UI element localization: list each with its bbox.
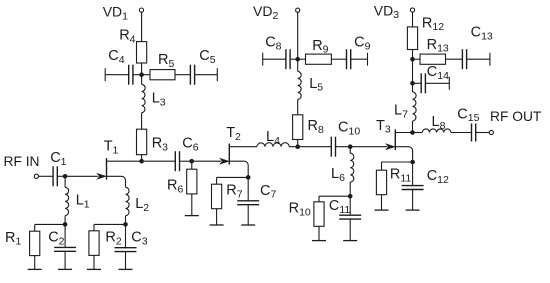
label L8: [432, 114, 446, 132]
capacitor C13: [462, 49, 466, 69]
node M junction (L7/L8 on output line): [410, 130, 415, 135]
resistor R1: [30, 231, 40, 255]
capacitor C15: [472, 124, 476, 142]
wire R6 to ground: [191, 194, 193, 216]
wire T3 source bend: [395, 147, 412, 162]
open stub tick right of C9: [367, 53, 369, 66]
open stub tick right of C5: [216, 68, 218, 81]
label R11: [390, 167, 412, 185]
inductor L1: [65, 187, 69, 215]
label C13: [471, 25, 493, 43]
resistor R13: [420, 54, 446, 64]
wire R13 to C13: [446, 58, 463, 60]
resistor R2: [89, 231, 99, 256]
wire R8 bottom stem: [297, 140, 299, 147]
wire C13 to tick: [467, 58, 490, 60]
ground under R1: [28, 268, 42, 270]
wire node M up to L7: [412, 121, 414, 133]
label VD1: [103, 4, 128, 23]
wire node K to R10: [319, 196, 350, 202]
capacitor C2: [54, 247, 76, 251]
capacitor C1: [53, 166, 57, 186]
ground under R2: [87, 268, 101, 270]
wire node K down to C11: [349, 198, 351, 215]
wire T3 drain to node M: [395, 132, 412, 134]
inductor L8: [422, 129, 451, 133]
wire C2 to ground: [64, 251, 66, 269]
wire R10 to ground: [318, 226, 320, 240]
label C14: [427, 64, 449, 82]
label R12: [422, 15, 444, 33]
output port RF OUT terminal: [489, 130, 493, 134]
resistor R3: [137, 129, 147, 155]
transistor T3: [394, 129, 396, 150]
wire node B down to C2: [64, 227, 66, 248]
wire tick to C4: [105, 74, 129, 76]
wire C3 to ground: [125, 252, 127, 270]
transistor T1: [106, 158, 108, 180]
wire R4 to VD1 terminal: [141, 12, 143, 41]
T3 gate arrowhead: [386, 144, 394, 149]
T2 gate arrowhead: [220, 159, 228, 164]
capacitor C9: [347, 49, 351, 69]
wire R3 bottom stem: [141, 155, 143, 162]
capacitor C8: [286, 49, 290, 69]
T1 gate arrowhead: [98, 174, 106, 179]
resistor R6: [187, 169, 197, 194]
ground under C3: [119, 268, 133, 270]
wire node L down to C12: [412, 164, 414, 185]
wire R11 to ground: [381, 195, 383, 210]
input port RF IN terminal: [34, 174, 38, 178]
label R3: [152, 135, 168, 153]
open stub tick right of C13: [489, 53, 491, 66]
svg-text:RF IN: RF IN: [4, 154, 40, 169]
wire R3 to L3: [141, 113, 143, 130]
wire node N up to node P: [412, 59, 414, 83]
wire node B to R1: [35, 224, 65, 231]
wire node L to R11: [382, 162, 413, 170]
node H junction (R8 bottom on drain line): [295, 144, 300, 149]
resistor R12: [407, 27, 417, 50]
label R2: [105, 229, 121, 247]
label R8: [308, 118, 324, 136]
label T2: [226, 125, 241, 143]
label VD2: [253, 3, 278, 22]
wire R5 to C5: [175, 74, 190, 76]
node N junction (C14 row): [410, 81, 415, 86]
label L1: [76, 192, 90, 210]
wire C10 to node J: [335, 146, 350, 148]
inductor L4: [257, 143, 289, 147]
wire C4 to node E: [133, 74, 142, 76]
wire node I up to VD2 terminal: [297, 12, 299, 59]
wire C14 to tick: [425, 82, 449, 84]
label R6: [167, 178, 183, 196]
wire node A to T1 gate: [65, 175, 98, 177]
supply terminal VD3: [410, 8, 414, 12]
wire C1 to node A: [57, 175, 65, 177]
label C10: [338, 120, 360, 138]
ground under C12: [406, 209, 420, 211]
label R7: [226, 182, 242, 200]
label RF OUT: [490, 109, 542, 124]
label C7: [260, 183, 276, 201]
supply terminal VD2: [296, 8, 300, 12]
wire node F to T2 gate: [192, 160, 221, 162]
capacitor C12: [402, 186, 424, 190]
capacitor C3: [115, 248, 137, 252]
wire L7 to node N: [412, 83, 414, 92]
wire R8 to L5: [297, 99, 299, 114]
node E junction (C4/R5/L3/R4): [139, 72, 144, 77]
node P junction (R12/R13): [410, 57, 415, 62]
label VD3: [374, 2, 399, 21]
wire C5 to tick: [194, 74, 217, 76]
label C5: [199, 48, 215, 66]
label R4: [119, 27, 135, 45]
svg-text:RF OUT: RF OUT: [490, 109, 542, 124]
label RF IN: [4, 154, 40, 169]
label C3: [131, 229, 147, 247]
node G junction (T2 source/R7/C7): [246, 175, 251, 180]
ground under R10: [312, 240, 326, 242]
node L junction (T3 source/R11/C12): [410, 160, 415, 165]
capacitor C5: [190, 65, 194, 85]
inductor L5: [298, 71, 302, 99]
wire node I to R9: [298, 58, 306, 60]
label R9: [312, 38, 328, 56]
label L2: [135, 196, 149, 214]
wire T2 drain to L4: [229, 146, 257, 148]
resistor R9: [306, 54, 332, 64]
wire tick to C8: [263, 58, 286, 60]
wire node E up to R4: [141, 63, 143, 75]
capacitor C4: [129, 65, 133, 85]
node D junction (R3 bottom on drain line): [139, 159, 144, 164]
wire R7 to ground: [216, 209, 218, 225]
label C6: [182, 135, 198, 153]
label C2: [48, 229, 64, 247]
ground under R6: [185, 215, 199, 217]
resistor R10: [314, 202, 324, 227]
wire R2 to ground: [93, 255, 95, 269]
wire node G to R7: [217, 177, 249, 184]
ground under R7: [210, 224, 224, 226]
label T1: [104, 139, 119, 157]
label C8: [265, 35, 281, 53]
supply terminal VD1: [139, 8, 143, 12]
wire R9 to C9: [331, 58, 346, 60]
label C12: [427, 168, 449, 186]
label C4: [108, 48, 124, 66]
wire C12 to ground: [412, 190, 414, 211]
capacitor C7: [237, 201, 259, 205]
label R10: [289, 200, 311, 218]
capacitor C6: [175, 151, 179, 171]
node J junction (C10/L6/T3 gate): [348, 144, 353, 149]
label R13: [427, 37, 449, 55]
wire node A down to L1: [64, 178, 66, 187]
ground under C2: [58, 268, 72, 270]
label L4: [266, 129, 280, 147]
label R5: [158, 52, 174, 70]
wire node J to T3 gate: [350, 146, 387, 148]
inductor L2: [126, 187, 130, 215]
capacitor C10: [331, 137, 335, 157]
wire L2 to node C: [125, 216, 127, 225]
wire R12 to VD3 terminal: [412, 12, 414, 27]
resistor R11: [376, 170, 386, 195]
wire node C down to C3: [125, 227, 127, 248]
wire C11 to ground: [349, 219, 351, 241]
inductor L7: [413, 92, 417, 121]
wire C15 to RF OUT: [475, 132, 489, 134]
wire node J down to L6: [349, 149, 351, 154]
wire T2 source bend: [229, 161, 248, 177]
open stub tick left of C8: [262, 53, 264, 66]
node C junction (L2/R2/C3): [123, 222, 128, 227]
wire C8 to node I: [290, 58, 298, 60]
open stub tick right of C14: [448, 77, 450, 90]
inductor L3: [142, 84, 146, 112]
wire L5 to node I: [297, 59, 299, 71]
wire C6 to node F: [179, 160, 192, 162]
label R1: [5, 230, 21, 248]
node B junction (L1/R1/C2): [63, 222, 68, 227]
label C15: [457, 106, 479, 124]
wire node P to R13: [413, 58, 421, 60]
inductor L6: [350, 153, 354, 182]
label L3: [152, 91, 166, 109]
wire R1 to ground: [34, 256, 36, 270]
node F junction (C6/R6/T2 gate): [189, 159, 194, 164]
capacitor C11: [339, 215, 361, 219]
resistor R8: [293, 115, 303, 140]
label L5: [309, 76, 323, 94]
ground under C7: [241, 224, 255, 226]
label L6: [331, 166, 345, 184]
wire node F down to R6: [191, 161, 193, 169]
node A junction (C1/L1/T1 gate): [63, 174, 68, 179]
ground under R11: [375, 209, 389, 211]
wire node P up to R12: [412, 50, 414, 60]
label C1: [50, 150, 66, 168]
wire RF IN to C1: [39, 175, 54, 177]
wire L8 to C15: [451, 132, 472, 134]
node I junction (C8/R9/L5): [295, 57, 300, 62]
wire C9 to tick: [350, 58, 367, 60]
node K junction (L6/R10/C11): [348, 194, 353, 199]
resistor R7: [212, 184, 222, 209]
ground under C11: [343, 240, 357, 242]
wire node N to C14: [413, 82, 422, 84]
wire node G down to C7: [247, 180, 249, 201]
wire C7 to ground: [247, 205, 249, 225]
wire T1 drain line to C6: [107, 160, 176, 162]
wire node M to L8: [413, 132, 423, 134]
label C11: [329, 198, 351, 216]
wire L4 to node H: [289, 146, 331, 148]
resistor R4: [137, 42, 147, 63]
wire T1 source bend to L2: [107, 176, 126, 187]
wire L6 to node K: [349, 182, 351, 196]
wire node C to R2: [94, 224, 126, 230]
wire L3 to node E: [141, 75, 143, 85]
label L7: [394, 103, 408, 121]
wire L1 to node B: [64, 216, 66, 225]
resistor R5: [150, 70, 175, 80]
wire node E to R5: [142, 74, 150, 76]
open stub tick left of C4: [104, 68, 106, 81]
label C9: [354, 35, 370, 53]
label T3: [376, 118, 391, 136]
transistor T2: [228, 144, 230, 165]
capacitor C14: [421, 73, 425, 93]
